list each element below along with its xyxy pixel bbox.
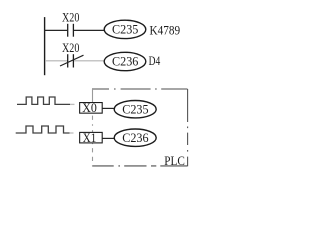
- contact X20 normally-closed: [60, 54, 84, 67]
- input terminal X1: [80, 130, 103, 145]
- PLC boundary bottom: [92, 165, 188, 167]
- contact X20 normally-open: [68, 24, 74, 37]
- counter coil C235: [104, 20, 146, 38]
- PLC boundary right: [187, 89, 189, 166]
- wire rung2 left: [45, 60, 67, 62]
- svg-text:C235: C235: [122, 101, 148, 116]
- svg-text:K4789: K4789: [150, 22, 181, 37]
- wire rung2 right: [74, 60, 105, 62]
- svg-text:X20: X20: [62, 10, 79, 25]
- svg-text:C236: C236: [112, 54, 139, 69]
- PLC boundary top: [92, 88, 188, 90]
- svg-text:X0: X0: [82, 100, 97, 115]
- wire rung1 left: [44, 29, 67, 31]
- PLC boundary left: [92, 89, 94, 166]
- waveform X1 pulse train: [16, 126, 74, 133]
- waveform X0 pulse train: [17, 97, 75, 104]
- counter C235 (bottom): [114, 101, 156, 118]
- counter coil C236: [104, 52, 146, 70]
- svg-text:D4: D4: [149, 53, 161, 68]
- svg-text:X20: X20: [62, 40, 79, 55]
- input terminal X0: [80, 100, 103, 115]
- left power rail: [44, 17, 46, 75]
- counter C236 (bottom): [114, 129, 156, 146]
- svg-text:C236: C236: [122, 130, 149, 145]
- svg-text:C235: C235: [112, 22, 138, 37]
- svg-text:PLC: PLC: [164, 153, 185, 168]
- wire X0 to C235: [102, 107, 114, 109]
- svg-text:X1: X1: [83, 130, 96, 145]
- wire rung1 right: [74, 29, 104, 31]
- wire X1 to C236: [102, 137, 114, 139]
